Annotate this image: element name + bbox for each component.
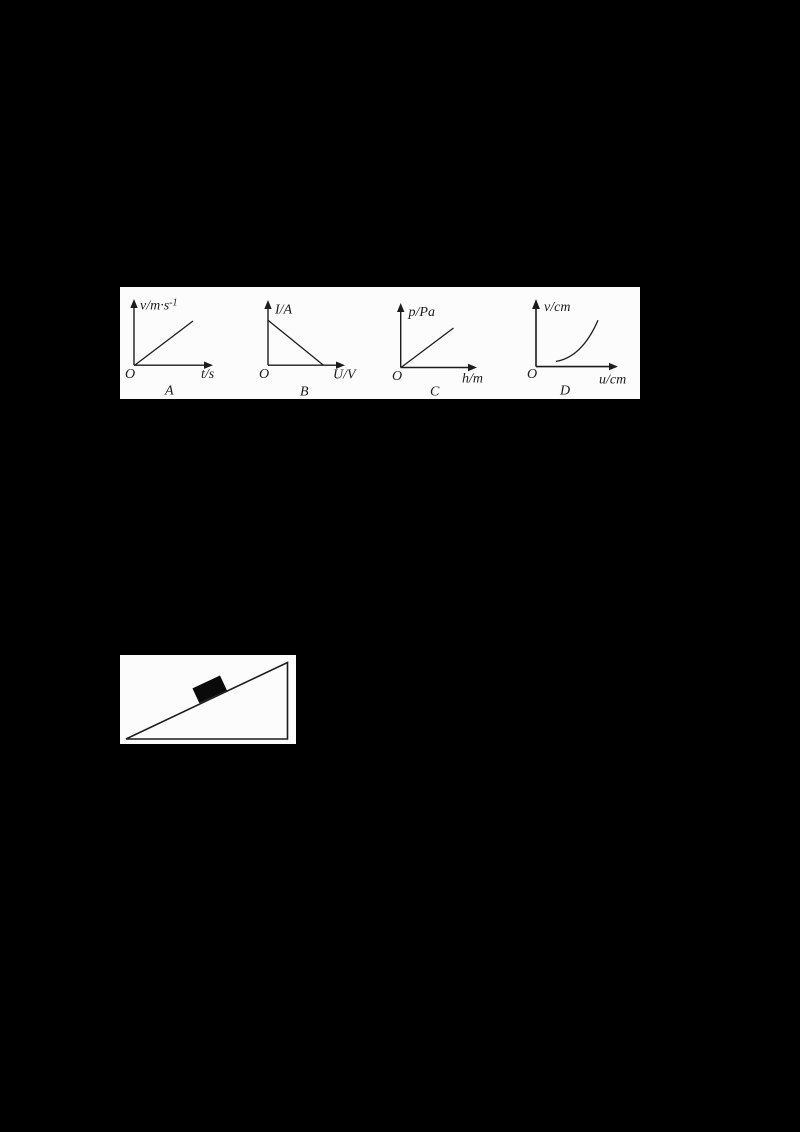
svg-text:C: C xyxy=(430,385,440,400)
graph C x arrowhead xyxy=(468,364,477,371)
graph A y arrowhead xyxy=(130,299,137,308)
svg-text:p/Pa: p/Pa xyxy=(408,305,435,320)
graph A x arrowhead xyxy=(204,362,213,369)
graph C line xyxy=(401,328,454,368)
svg-text:v/cm: v/cm xyxy=(544,300,570,315)
svg-text:D: D xyxy=(559,384,570,399)
svg-text:A: A xyxy=(164,384,174,399)
svg-text:v/m·s-1: v/m·s-1 xyxy=(140,298,178,314)
graph D axes xyxy=(536,305,615,367)
graph D curve xyxy=(556,320,598,361)
block on incline xyxy=(192,676,226,704)
graph B x arrowhead xyxy=(336,362,345,369)
svg-text:O: O xyxy=(125,367,135,382)
incline panel xyxy=(120,655,296,744)
svg-text:u/cm: u/cm xyxy=(599,373,626,388)
svg-text:O: O xyxy=(392,369,402,384)
svg-text:U/V: U/V xyxy=(333,368,357,383)
graph A line xyxy=(135,321,193,365)
svg-text:O: O xyxy=(259,367,269,382)
graph B axes xyxy=(268,305,342,365)
graph D x arrowhead xyxy=(609,363,618,370)
svg-text:O: O xyxy=(527,367,537,382)
graph B y arrowhead xyxy=(264,300,271,309)
graph D y arrowhead xyxy=(532,299,540,309)
graph C y arrowhead xyxy=(397,303,404,312)
svg-text:h/m: h/m xyxy=(462,372,483,387)
graph A axes xyxy=(134,304,210,365)
svg-text:t/s: t/s xyxy=(201,367,215,382)
graphs panel xyxy=(120,287,640,399)
graph C axes xyxy=(401,308,474,368)
graph B line xyxy=(268,320,324,365)
svg-text:I/A: I/A xyxy=(274,303,293,318)
svg-text:B: B xyxy=(300,385,309,400)
inclined plane triangle xyxy=(126,663,288,740)
